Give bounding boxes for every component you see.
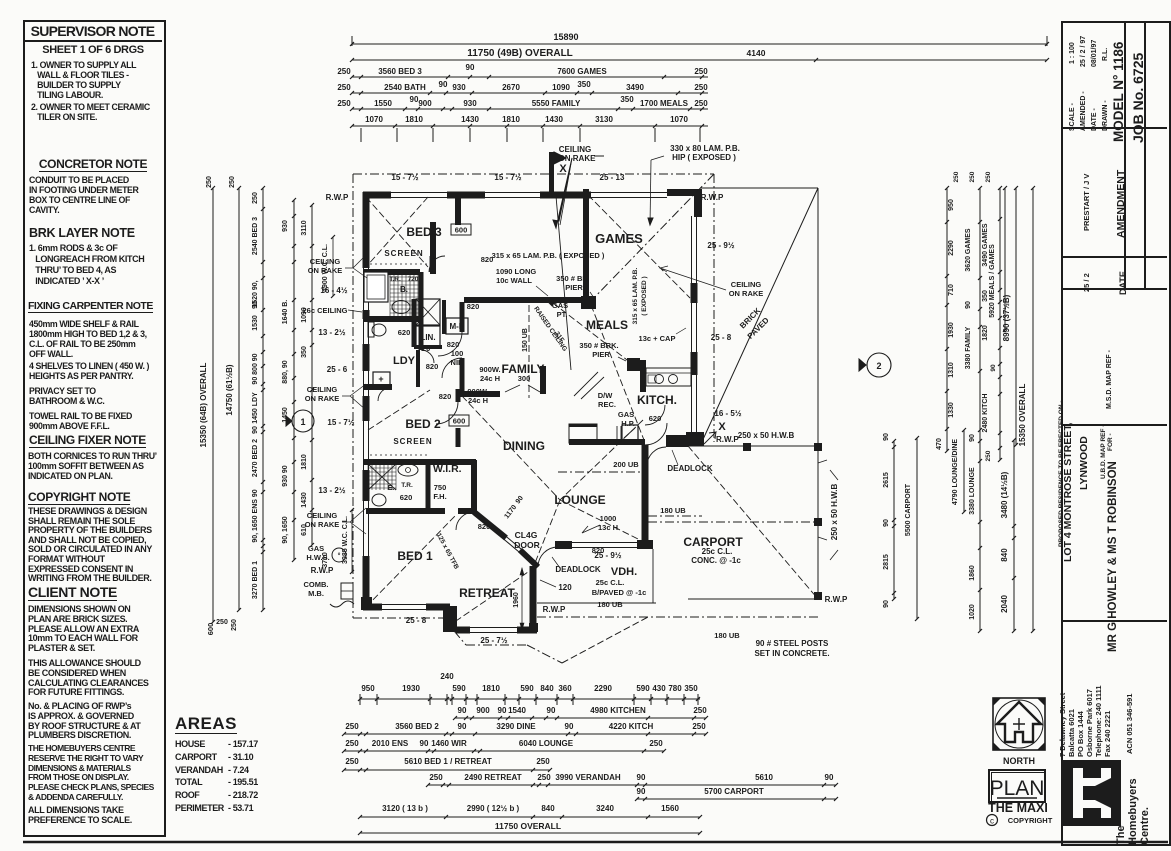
svg-text:250: 250 <box>345 739 359 748</box>
svg-text:3130: 3130 <box>595 115 613 124</box>
svg-text:90: 90 <box>420 739 429 748</box>
svg-text:250: 250 <box>649 739 663 748</box>
svg-text:1960: 1960 <box>513 592 520 608</box>
svg-text:250: 250 <box>985 450 992 461</box>
svg-text:250: 250 <box>345 722 359 731</box>
svg-text:250: 250 <box>231 619 238 631</box>
svg-text:7600 GAMES: 7600 GAMES <box>557 67 607 76</box>
svg-text:250 x 50 H.W.B: 250 x 50 H.W.B <box>738 431 795 440</box>
svg-text:250: 250 <box>252 192 259 204</box>
svg-text:3110: 3110 <box>301 220 308 235</box>
svg-text:1: 1 <box>450 592 451 593</box>
svg-text:250: 250 <box>694 83 708 92</box>
svg-text:25 - 8: 25 - 8 <box>406 616 427 625</box>
svg-text:13c H: 13c H <box>598 523 618 532</box>
svg-text:720: 720 <box>418 344 431 353</box>
svg-text:15350 OVERALL: 15350 OVERALL <box>1018 384 1027 447</box>
svg-text:LDY: LDY <box>393 355 416 367</box>
svg-text:13 - 2½: 13 - 2½ <box>318 486 345 495</box>
svg-text:1560: 1560 <box>661 804 679 813</box>
svg-text:4900 W.C. C.L.: 4900 W.C. C.L. <box>322 244 329 292</box>
svg-text:5610: 5610 <box>755 773 773 782</box>
svg-text:15 - 7½: 15 - 7½ <box>327 418 354 427</box>
svg-text:3710: 3710 <box>322 552 329 568</box>
svg-text:900W.: 900W. <box>467 387 488 396</box>
svg-text:930: 930 <box>463 99 477 108</box>
svg-text:950: 950 <box>948 199 955 211</box>
svg-text:620: 620 <box>400 493 413 502</box>
svg-text:2540 BED 3: 2540 BED 3 <box>252 217 259 255</box>
svg-text:1450: 1450 <box>282 407 289 423</box>
svg-text:25c C.L.: 25c C.L. <box>596 578 625 587</box>
svg-text:5920 MEALS / GAMES: 5920 MEALS / GAMES <box>989 244 996 318</box>
svg-text:CEILING: CEILING <box>307 385 338 394</box>
svg-text:900W.: 900W. <box>479 365 500 374</box>
svg-text:350: 350 <box>620 95 634 104</box>
svg-text:1170: 1170 <box>503 504 518 520</box>
svg-text:1090: 1090 <box>301 307 308 323</box>
svg-text:24c H: 24c H <box>468 396 488 405</box>
svg-text:250: 250 <box>337 83 351 92</box>
svg-text:315 x 65 LAM. P.B. ( EXPOSED: 315 x 65 LAM. P.B. ( EXPOSED ) <box>492 251 605 260</box>
svg-text:5550 FAMILY: 5550 FAMILY <box>532 99 581 108</box>
svg-text:1450 LDY: 1450 LDY <box>252 392 259 424</box>
svg-text:330 x 80 LAM. P.B.: 330 x 80 LAM. P.B. <box>670 144 740 153</box>
svg-text:90: 90 <box>965 301 972 309</box>
svg-text:880, 90: 880, 90 <box>282 360 289 383</box>
svg-text:MEALS: MEALS <box>586 318 628 332</box>
svg-text:250: 250 <box>345 757 359 766</box>
svg-text:SCREEN: SCREEN <box>384 249 423 258</box>
svg-text:2815: 2815 <box>883 554 890 570</box>
svg-text:24c H: 24c H <box>480 374 500 383</box>
svg-text:2670: 2670 <box>502 83 520 92</box>
svg-text:3560 BED 2: 3560 BED 2 <box>395 722 439 731</box>
svg-text:620: 620 <box>398 328 411 337</box>
svg-text:GAS: GAS <box>308 544 324 553</box>
svg-text:900: 900 <box>418 99 432 108</box>
svg-text:90: 90 <box>458 722 467 731</box>
svg-text:840: 840 <box>540 684 554 693</box>
svg-text:1430: 1430 <box>301 492 308 508</box>
svg-text:2470 BED 2: 2470 BED 2 <box>252 439 259 477</box>
svg-text:90: 90 <box>883 600 890 608</box>
svg-text:4980 KITCHEN: 4980 KITCHEN <box>590 706 646 715</box>
svg-text:RETREAT: RETREAT <box>459 586 515 600</box>
svg-text:1430: 1430 <box>461 115 479 124</box>
svg-text:600: 600 <box>206 623 215 636</box>
svg-text:15890: 15890 <box>553 32 578 42</box>
svg-text:1090 LONG: 1090 LONG <box>496 267 537 276</box>
svg-text:90: 90 <box>458 706 467 715</box>
svg-text:CL4G: CL4G <box>515 530 538 540</box>
svg-text:90 # STEEL POSTS: 90 # STEEL POSTS <box>756 639 829 648</box>
svg-text:NORTH: NORTH <box>1003 756 1035 766</box>
svg-text:430: 430 <box>652 684 666 693</box>
svg-text:1640 B.: 1640 B. <box>282 300 289 325</box>
svg-text:CONC. @ -1c: CONC. @ -1c <box>691 556 741 565</box>
svg-text:°: ° <box>338 552 341 560</box>
svg-text:3380 FAMILY: 3380 FAMILY <box>965 326 972 369</box>
svg-text:120: 120 <box>558 583 572 592</box>
svg-text:350: 350 <box>684 684 698 693</box>
svg-text:600: 600 <box>455 226 468 235</box>
svg-text:F.H.: F.H. <box>433 492 446 501</box>
svg-text:BED 2: BED 2 <box>405 417 441 431</box>
svg-text:B/PAVED @ -1c: B/PAVED @ -1c <box>592 588 647 597</box>
svg-text:90: 90 <box>515 495 525 506</box>
svg-text:1070: 1070 <box>365 115 383 124</box>
svg-text:900: 900 <box>476 706 490 715</box>
svg-text:250: 250 <box>337 67 351 76</box>
svg-text:250 x 50 H.W.B: 250 x 50 H.W.B <box>830 484 839 541</box>
svg-text:PIER: PIER <box>565 283 583 292</box>
svg-text:820: 820 <box>592 546 605 555</box>
svg-text:GAMES: GAMES <box>595 231 643 246</box>
svg-text:15350 (64B) OVERALL: 15350 (64B) OVERALL <box>199 362 208 447</box>
svg-text:1810: 1810 <box>405 115 423 124</box>
svg-text:5500 CARPORT: 5500 CARPORT <box>905 483 912 536</box>
svg-text:2990 ( 12½ b ): 2990 ( 12½ b ) <box>467 804 520 813</box>
svg-text:13c + CAP: 13c + CAP <box>639 334 676 343</box>
svg-text:250: 250 <box>985 171 992 182</box>
svg-text:90: 90 <box>969 434 976 442</box>
svg-text:1930: 1930 <box>948 322 955 338</box>
svg-text:250: 250 <box>693 706 707 715</box>
svg-text:VDH.: VDH. <box>611 566 637 578</box>
svg-text:R.W.P: R.W.P <box>326 193 349 202</box>
svg-text:5610 BED 1 / RETREAT: 5610 BED 1 / RETREAT <box>404 757 492 766</box>
svg-text:90: 90 <box>990 364 997 372</box>
svg-text:X: X <box>718 421 726 433</box>
svg-text:820: 820 <box>478 522 491 531</box>
svg-text:3490: 3490 <box>626 83 644 92</box>
svg-text:16 - 5½: 16 - 5½ <box>714 409 741 418</box>
svg-text:90: 90 <box>825 773 834 782</box>
svg-text:B.: B. <box>400 285 408 294</box>
svg-text:PT.: PT. <box>557 310 568 319</box>
svg-text:250: 250 <box>229 176 236 188</box>
svg-text:125 x 65 TFB: 125 x 65 TFB <box>435 532 460 571</box>
svg-text:250: 250 <box>216 619 228 626</box>
svg-text:KITCH.: KITCH. <box>637 393 677 407</box>
svg-text:780: 780 <box>668 684 682 693</box>
svg-text:CEILING: CEILING <box>307 511 338 520</box>
svg-text:1020: 1020 <box>969 604 976 620</box>
svg-text:BED 1: BED 1 <box>397 549 433 563</box>
svg-text:200 UB: 200 UB <box>613 460 639 469</box>
svg-text:25 - 6: 25 - 6 <box>327 365 348 374</box>
svg-text:GAS: GAS <box>618 410 634 419</box>
svg-text:720: 720 <box>670 433 683 442</box>
svg-text:1430: 1430 <box>545 115 563 124</box>
svg-text:250: 250 <box>953 171 960 182</box>
svg-text:3240: 3240 <box>596 804 614 813</box>
svg-text:6040 LOUNGE: 6040 LOUNGE <box>519 739 574 748</box>
svg-text:4790 LOUNGE/DINE: 4790 LOUNGE/DINE <box>952 439 959 505</box>
svg-text:350 # BR: 350 # BR <box>556 274 588 283</box>
svg-text:1: 1 <box>300 417 305 427</box>
svg-text:REC.: REC. <box>598 400 616 409</box>
svg-text:M.B.: M.B. <box>308 589 324 598</box>
svg-text:950: 950 <box>361 684 375 693</box>
svg-text:+: + <box>378 374 383 384</box>
svg-text:5700 CARPORT: 5700 CARPORT <box>704 787 764 796</box>
svg-text:350 # BRK.: 350 # BRK. <box>579 341 618 350</box>
svg-text:COMB.: COMB. <box>304 580 329 589</box>
svg-text:HIP ( EXPOSED ): HIP ( EXPOSED ) <box>672 153 736 162</box>
svg-text:250: 250 <box>694 67 708 76</box>
svg-text:2540 BATH: 2540 BATH <box>384 83 426 92</box>
svg-text:T.R.: T.R. <box>389 276 401 283</box>
svg-text:930: 930 <box>452 83 466 92</box>
svg-text:820: 820 <box>481 255 494 264</box>
svg-text:250: 250 <box>429 773 443 782</box>
svg-text:840: 840 <box>1000 548 1009 562</box>
svg-text:CEILING: CEILING <box>731 280 762 289</box>
svg-text:25c C.L.: 25c C.L. <box>702 547 733 556</box>
svg-text:LIN.: LIN. <box>420 333 435 342</box>
svg-text:1330: 1330 <box>948 402 955 418</box>
svg-text:4220 KITCH: 4220 KITCH <box>609 722 654 731</box>
svg-text:1310: 1310 <box>948 362 955 378</box>
svg-text:1810: 1810 <box>301 454 308 470</box>
svg-text:25 - 9½: 25 - 9½ <box>707 241 734 250</box>
svg-text:10c WALL: 10c WALL <box>496 276 532 285</box>
svg-text:E.: E. <box>388 485 395 492</box>
svg-text:W.I.R.: W.I.R. <box>433 463 462 475</box>
svg-text:180 UB: 180 UB <box>660 506 686 515</box>
svg-text:90: 90 <box>466 63 475 72</box>
svg-text:750: 750 <box>434 483 447 492</box>
svg-text:14750 (61½B): 14750 (61½B) <box>225 364 234 415</box>
svg-text:FAMILY: FAMILY <box>502 362 545 376</box>
svg-text:SCREEN: SCREEN <box>393 437 432 446</box>
svg-text:R.W.P: R.W.P <box>701 193 724 202</box>
svg-text:3990 VERANDAH: 3990 VERANDAH <box>555 773 621 782</box>
svg-text:R.W.P: R.W.P <box>825 595 848 604</box>
svg-text:90: 90 <box>252 301 259 309</box>
svg-text:DEADLOCK: DEADLOCK <box>555 565 601 574</box>
svg-text:3380 LOUNGE: 3380 LOUNGE <box>969 467 976 515</box>
svg-text:2040: 2040 <box>1000 595 1009 613</box>
svg-text:2290: 2290 <box>594 684 612 693</box>
svg-text:1930: 1930 <box>402 684 420 693</box>
svg-text:600: 600 <box>453 417 466 426</box>
svg-text:11750 (49B) OVERALL: 11750 (49B) OVERALL <box>467 48 573 59</box>
svg-text:2490 RETREAT: 2490 RETREAT <box>464 773 521 782</box>
svg-text:360: 360 <box>558 684 572 693</box>
svg-text:150 UB: 150 UB <box>522 328 529 352</box>
svg-text:2480 KITCH: 2480 KITCH <box>982 394 989 433</box>
svg-text:T.R.: T.R. <box>401 482 413 489</box>
svg-text:1540: 1540 <box>508 706 526 715</box>
svg-text:590: 590 <box>520 684 534 693</box>
svg-text:COPYRIGHT: COPYRIGHT <box>1008 816 1053 825</box>
svg-text:H.P.: H.P. <box>621 419 635 428</box>
svg-text:GAS: GAS <box>552 301 568 310</box>
svg-text:100: 100 <box>451 349 464 358</box>
svg-text:90: 90 <box>883 433 890 441</box>
svg-text:SCREEN: SCREEN <box>409 450 410 451</box>
svg-text:3490 GAMES: 3490 GAMES <box>982 223 989 267</box>
svg-text:3560 BED 3: 3560 BED 3 <box>378 67 422 76</box>
svg-text:250: 250 <box>694 99 708 108</box>
svg-text:CEILING: CEILING <box>559 145 591 154</box>
svg-text:250: 250 <box>337 99 351 108</box>
svg-text:SET IN CONCRETE.: SET IN CONCRETE. <box>754 649 829 658</box>
svg-text:3985 W.C. C.L.: 3985 W.C. C.L. <box>342 516 349 564</box>
svg-text:1000: 1000 <box>600 514 617 523</box>
svg-text:180 UB: 180 UB <box>714 631 740 640</box>
svg-text:590: 590 <box>636 684 650 693</box>
svg-text:90: 90 <box>252 426 259 434</box>
svg-text:25 - 8: 25 - 8 <box>711 333 732 342</box>
svg-text:25 - 7½: 25 - 7½ <box>480 636 507 645</box>
svg-text:DINING: DINING <box>503 439 545 453</box>
svg-text:820: 820 <box>426 362 439 371</box>
svg-text:26c CEILING: 26c CEILING <box>302 306 347 315</box>
svg-text:720: 720 <box>408 276 419 283</box>
svg-text:820: 820 <box>467 302 480 311</box>
svg-text:2615: 2615 <box>883 472 890 488</box>
svg-text:DEADLOCK: DEADLOCK <box>667 464 713 473</box>
svg-text:4140: 4140 <box>747 48 766 58</box>
svg-text:250: 250 <box>692 722 706 731</box>
svg-text:D/W: D/W <box>598 391 614 400</box>
svg-text:( EXPOSED ): ( EXPOSED ) <box>641 276 648 315</box>
svg-text:1530: 1530 <box>252 315 259 331</box>
svg-text:90: 90 <box>883 519 890 527</box>
svg-text:930 90: 930 90 <box>282 465 289 487</box>
svg-text:315 x 65 LAM. P.B.: 315 x 65 LAM. P.B. <box>632 268 639 325</box>
svg-text:1810: 1810 <box>502 115 520 124</box>
svg-text:590: 590 <box>452 684 466 693</box>
svg-text:ON RAKE: ON RAKE <box>729 289 764 298</box>
svg-text:90: 90 <box>637 773 646 782</box>
svg-text:1820: 1820 <box>982 325 989 341</box>
svg-text:90: 90 <box>439 80 448 89</box>
svg-text:250: 250 <box>537 773 551 782</box>
svg-text:DINING: DINING <box>606 469 607 470</box>
svg-text:250: 250 <box>536 757 550 766</box>
svg-text:8990 (37½B): 8990 (37½B) <box>1002 294 1011 341</box>
svg-text:90, 1650: 90, 1650 <box>282 516 289 543</box>
svg-text:X: X <box>559 163 567 175</box>
svg-text:240: 240 <box>440 672 454 681</box>
svg-text:ON RAKE: ON RAKE <box>305 520 340 529</box>
svg-text:1810: 1810 <box>482 684 500 693</box>
svg-text:1460 WIR: 1460 WIR <box>431 739 467 748</box>
svg-text:90 800 90: 90 800 90 <box>252 353 259 384</box>
svg-text:350: 350 <box>301 346 308 358</box>
svg-text:1090: 1090 <box>552 83 570 92</box>
svg-text:11750 OVERALL: 11750 OVERALL <box>495 821 561 831</box>
svg-text:13 - 2½: 13 - 2½ <box>318 328 345 337</box>
svg-text:BED 3: BED 3 <box>406 225 442 239</box>
svg-text:LOUNGE: LOUNGE <box>554 493 605 507</box>
svg-text:470: 470 <box>936 438 943 450</box>
svg-text:1070: 1070 <box>670 115 688 124</box>
svg-text:3270 BED 1: 3270 BED 1 <box>252 561 259 599</box>
svg-text:90: 90 <box>547 706 556 715</box>
svg-text:710: 710 <box>948 284 955 296</box>
svg-text:90, 1650 ENS 90: 90, 1650 ENS 90 <box>252 489 259 542</box>
svg-text:350: 350 <box>577 80 591 89</box>
svg-text:3480 (14½B): 3480 (14½B) <box>1000 471 1009 518</box>
svg-text:DOOR: DOOR <box>514 540 540 550</box>
svg-text:90: 90 <box>498 706 507 715</box>
svg-text:ON RAKE: ON RAKE <box>305 394 340 403</box>
svg-text:R.W.P: R.W.P <box>543 605 566 614</box>
svg-text:90: 90 <box>637 787 646 796</box>
svg-text:250: 250 <box>206 176 213 188</box>
svg-text:1550: 1550 <box>374 99 392 108</box>
svg-text:PIER: PIER <box>592 350 610 359</box>
svg-text:2290: 2290 <box>948 240 955 256</box>
svg-text:820: 820 <box>447 340 460 349</box>
svg-text:R.W.P: R.W.P <box>716 435 739 444</box>
svg-text:90: 90 <box>565 722 574 731</box>
svg-text:820: 820 <box>439 392 452 401</box>
svg-text:250: 250 <box>969 171 976 182</box>
svg-text:840: 840 <box>541 804 555 813</box>
svg-text:610: 610 <box>301 524 308 536</box>
svg-text:2: 2 <box>876 361 881 371</box>
svg-text:3290 DINE: 3290 DINE <box>496 722 536 731</box>
svg-text:PLAN: PLAN <box>990 777 1045 800</box>
svg-text:THE MAXI: THE MAXI <box>988 801 1048 815</box>
svg-text:3620 GAMES: 3620 GAMES <box>965 228 972 272</box>
svg-text:2010 ENS: 2010 ENS <box>372 739 409 748</box>
svg-text:1700 MEALS: 1700 MEALS <box>640 99 689 108</box>
svg-text:930: 930 <box>282 220 289 232</box>
svg-text:1860: 1860 <box>969 565 976 581</box>
svg-text:180 UB: 180 UB <box>597 600 623 609</box>
svg-text:c: c <box>990 817 994 826</box>
svg-text:3120 ( 13 b ): 3120 ( 13 b ) <box>382 804 428 813</box>
svg-text:350: 350 <box>982 290 989 302</box>
